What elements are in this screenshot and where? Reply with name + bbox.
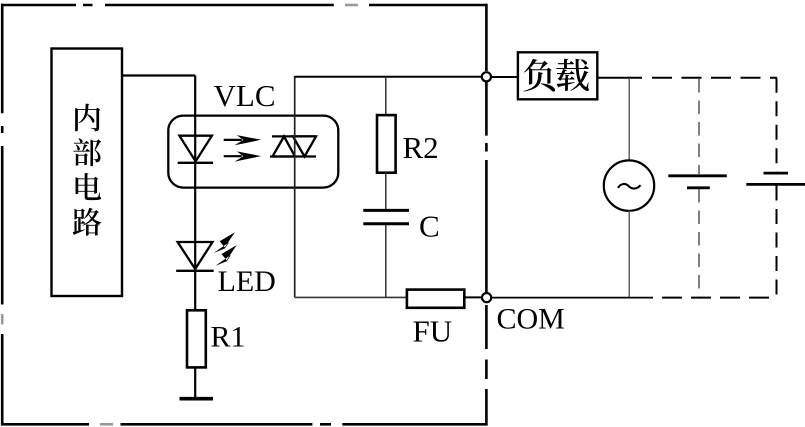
svg-text:VLC: VLC bbox=[214, 78, 276, 113]
light arrows bbox=[224, 135, 262, 162]
PLC enclosure right border (chain line) bbox=[485, 4, 488, 426]
opto triac bbox=[270, 136, 316, 156]
battery B1 bbox=[668, 176, 727, 188]
internal circuit box 内部电路 bbox=[52, 49, 123, 297]
wire: fuse to COM terminal bbox=[464, 296, 486, 298]
wire: COM to AC bottom bbox=[491, 297, 653, 299]
battery B2 bbox=[746, 173, 805, 184]
label 载 bbox=[556, 59, 589, 91]
PLC enclosure left border (chain line) bbox=[1, 4, 4, 426]
wire: load to AC branch bbox=[597, 77, 642, 79]
label 电 bbox=[76, 173, 102, 200]
PLC enclosure bottom border (chain line) bbox=[1, 423, 487, 426]
wire: R1 to ground bbox=[194, 367, 196, 397]
label 内 (internal) bbox=[75, 104, 100, 132]
wire: AC source top bbox=[628, 78, 630, 161]
output terminal (top) bbox=[482, 72, 491, 81]
opto LED diode bbox=[178, 136, 213, 163]
wire: bottom dashed bbox=[662, 297, 777, 299]
svg-text:FU: FU bbox=[413, 314, 453, 349]
AC source bbox=[604, 160, 654, 210]
wire: battery1 bottom dashed bbox=[698, 189, 700, 298]
fuse FU bbox=[407, 290, 464, 308]
wire: triac to output terminal (top) bbox=[295, 76, 486, 78]
svg-text:COM: COM bbox=[497, 303, 565, 336]
svg-text:LED: LED bbox=[218, 265, 276, 298]
svg-text:R2: R2 bbox=[403, 130, 439, 165]
capacitor C bbox=[363, 210, 409, 223]
wire: battery2 top dashed bbox=[776, 78, 778, 172]
wire: triac column vertical bbox=[294, 76, 296, 297]
svg-text:R1: R1 bbox=[211, 321, 246, 354]
wire: top dashed bbox=[652, 77, 777, 79]
COM terminal bbox=[482, 293, 491, 302]
optocoupler VLC body bbox=[168, 116, 338, 188]
wire: R2 branch top bbox=[385, 77, 387, 115]
label 负 (load) bbox=[524, 59, 556, 92]
load box 负载 bbox=[518, 52, 597, 99]
wire: C to bottom wire bbox=[385, 225, 387, 297]
wire: battery2 bottom dashed bbox=[776, 186, 778, 298]
resistor R1 bbox=[187, 310, 206, 367]
label 路 bbox=[73, 208, 102, 236]
ground bbox=[180, 397, 214, 401]
wire: terminal to load bbox=[491, 76, 518, 78]
wire: internal circuit to LED column bbox=[122, 74, 195, 76]
svg-text:C: C bbox=[419, 209, 440, 244]
LED emission bolts bbox=[214, 232, 237, 265]
wire: battery1 top dashed bbox=[698, 79, 700, 174]
wire: R2 to C bbox=[385, 173, 387, 209]
wire: LED column vertical bbox=[194, 76, 196, 312]
PLC enclosure top border (chain line) bbox=[1, 4, 487, 7]
resistor R2 bbox=[377, 115, 396, 173]
LED indicator diode bbox=[176, 242, 214, 271]
wire: bottom (triac to fuse) bbox=[295, 296, 407, 298]
label 部 bbox=[73, 138, 101, 166]
wire: AC source bottom bbox=[628, 211, 630, 298]
